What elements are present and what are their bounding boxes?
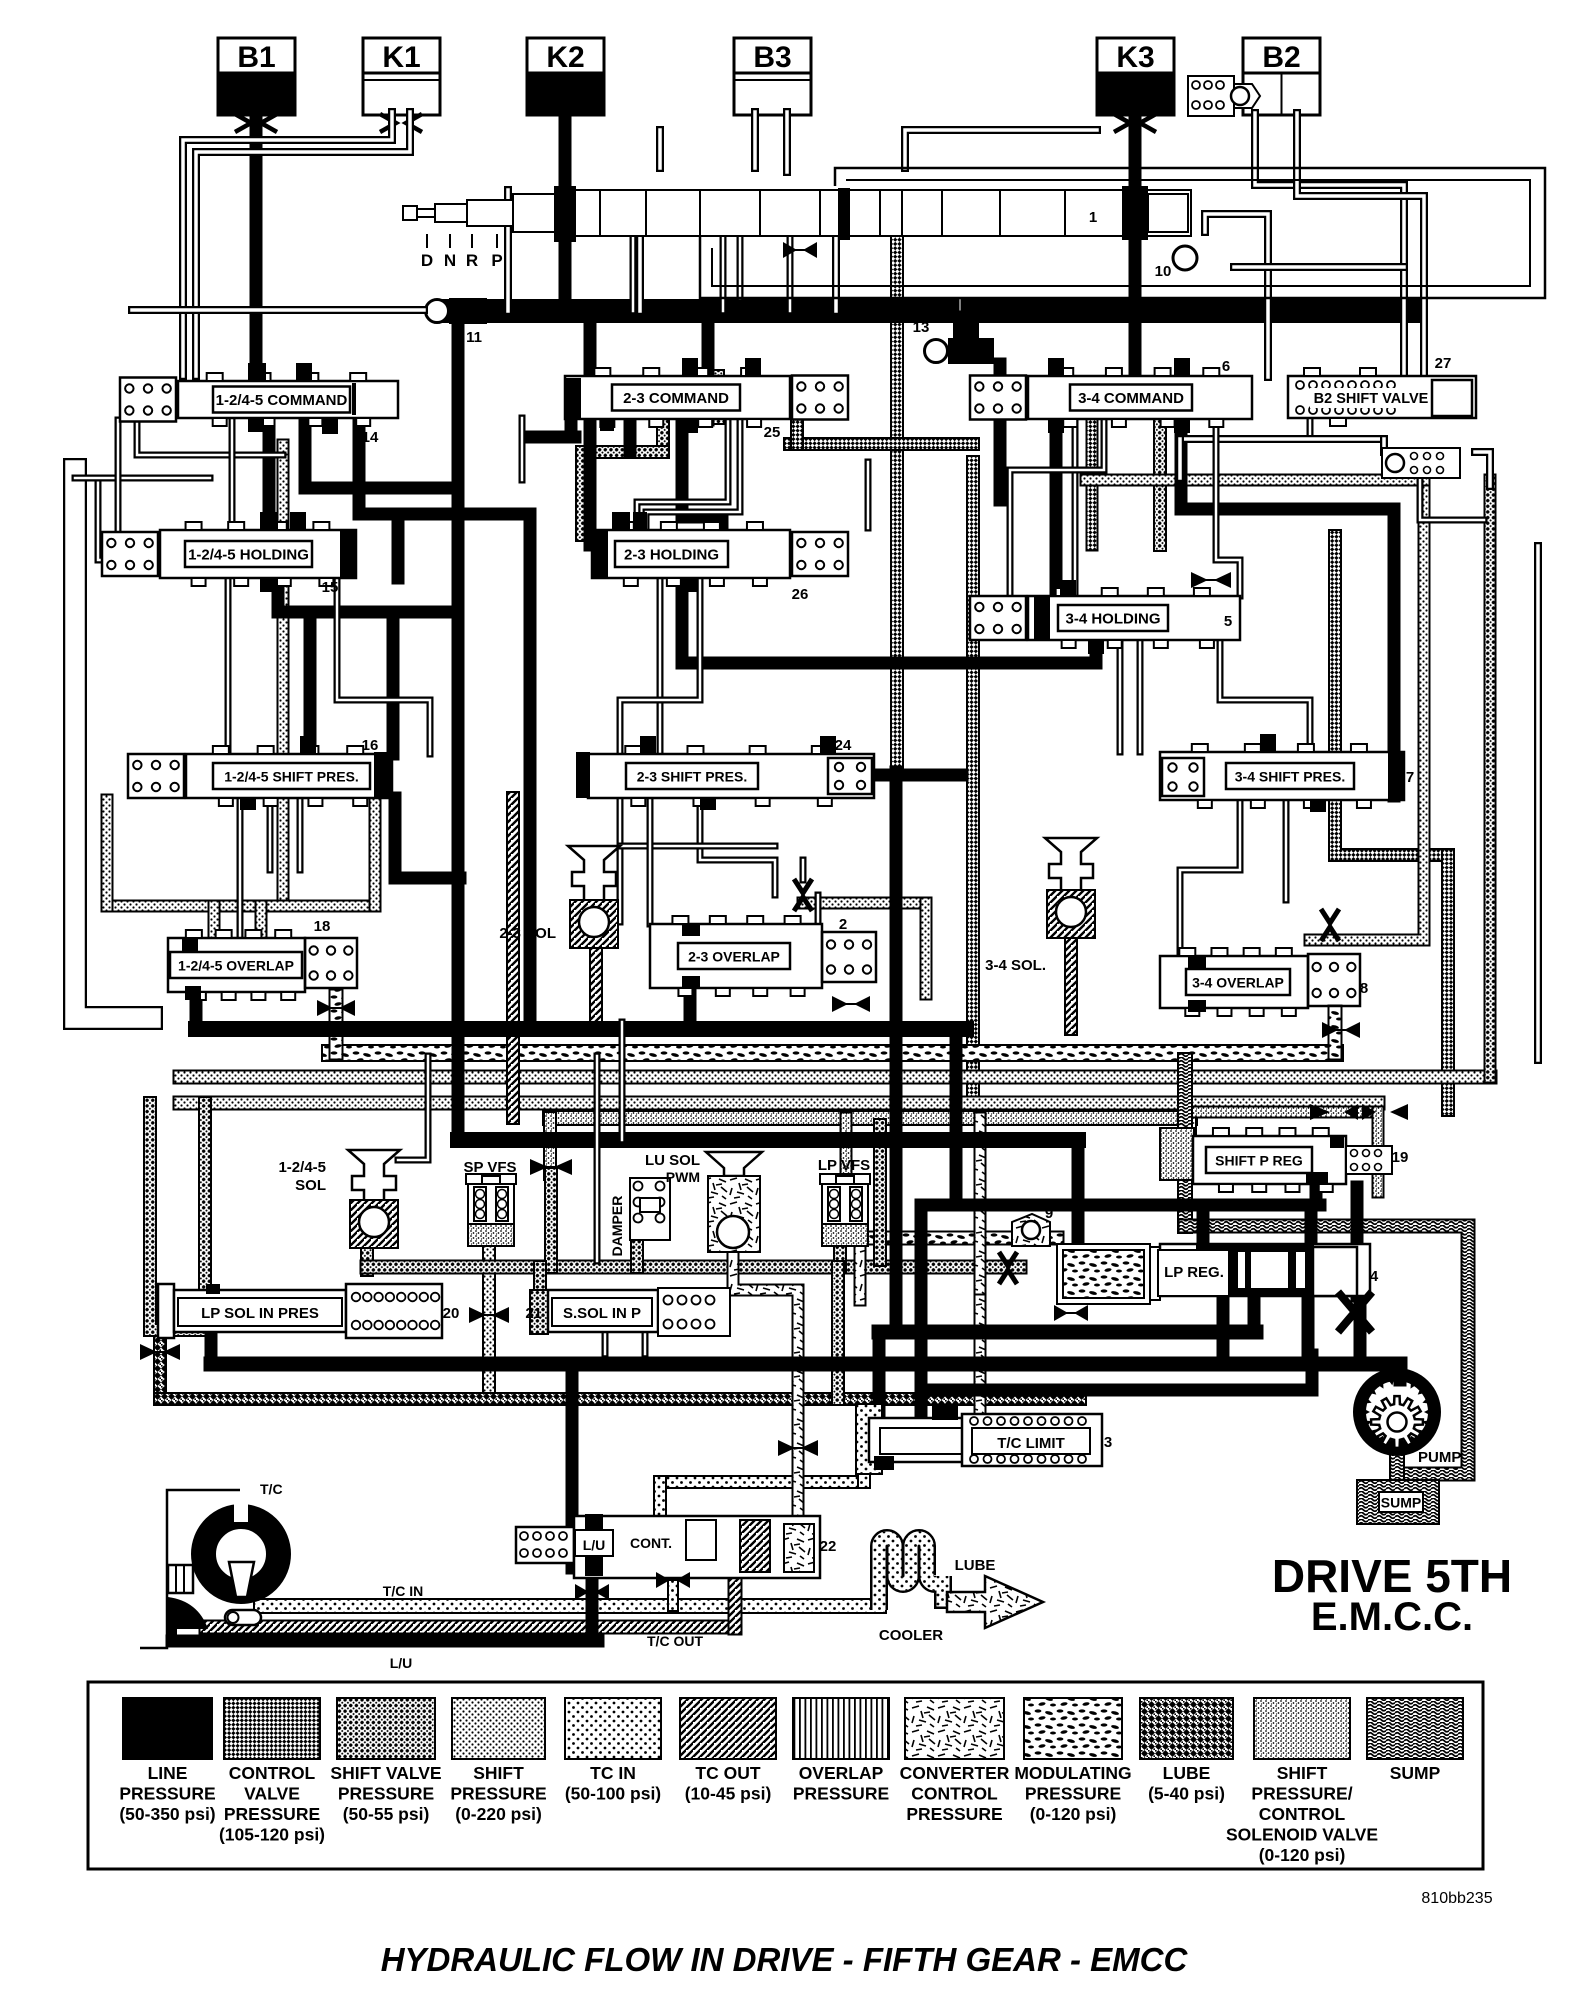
svg-text:B1: B1 [237, 41, 275, 74]
selector positions [421, 234, 503, 270]
pump inlet [1394, 1364, 1407, 1380]
sp vfs feed [543, 1118, 557, 1174]
svg-text:B3: B3 [753, 41, 791, 74]
drive 5th title [1272, 1550, 1512, 1639]
hld34 drop c [1137, 640, 1144, 752]
left frame C [98, 478, 160, 560]
valve 1-2/4-5 overlap [168, 930, 305, 1000]
tc left drop [167, 1626, 177, 1641]
svg-text:T/C IN: T/C IN [383, 1583, 423, 1599]
svg-text:N: N [444, 251, 456, 270]
drop to cap7 [1388, 509, 1401, 796]
orifice below manual valve [783, 242, 817, 258]
drop to lp reg [1072, 1140, 1085, 1246]
right drain riser [873, 1125, 887, 1260]
cmd34 drop b [1010, 419, 1104, 596]
svg-text:SOL: SOL [295, 1177, 326, 1194]
svg-text:VALVE: VALVE [244, 1784, 300, 1804]
legend swatch SHIFT VALVE [330, 1698, 441, 1824]
orifice on converter control drop [778, 1440, 818, 1456]
svg-text:1-2/4-5 COMMAND: 1-2/4-5 COMMAND [216, 392, 348, 409]
svg-text:K2: K2 [546, 41, 584, 74]
shift valve right edge drop [1484, 480, 1497, 1077]
shift pressure riser left [101, 800, 114, 906]
sp34 drop b [1283, 800, 1290, 900]
svg-text:LUBE: LUBE [955, 1557, 996, 1574]
item 4 label [1370, 1268, 1379, 1285]
item 25 label [764, 424, 781, 441]
solenoid LP VFS [820, 1174, 870, 1246]
control pressure drop [966, 462, 980, 1118]
converter control drop [733, 1252, 798, 1522]
item 2 label [839, 916, 847, 933]
T/C OUT label [647, 1633, 703, 1649]
svg-text:DAMPER: DAMPER [609, 1196, 625, 1257]
lube bottom header [160, 1392, 1080, 1406]
valve 1-2/4-5 command [120, 363, 398, 434]
ccp link [854, 1238, 867, 1300]
orifice below 3-4 overlap [1322, 1022, 1360, 1038]
svg-text:MODULATING: MODULATING [1014, 1763, 1131, 1783]
legend swatch TC OUT [680, 1698, 776, 1804]
overlap link 23 [620, 843, 775, 850]
svg-text:SUMP: SUMP [1390, 1763, 1441, 1783]
b2sv bottom header channel [1180, 435, 1384, 443]
line pressure center artery [890, 772, 903, 1332]
sp1 bottom branch [395, 798, 460, 878]
svg-text:LUBE: LUBE [1163, 1763, 1211, 1783]
hld1 to shift pres [304, 612, 317, 754]
band to ssol drop [533, 1267, 547, 1298]
orifice under B1 [235, 114, 277, 132]
svg-text:CONT.: CONT. [630, 1535, 672, 1551]
valve 3-4 overlap [1160, 948, 1308, 1016]
cmd23 left link [530, 431, 575, 444]
manual valve item 1 [403, 186, 1191, 242]
damper [609, 1178, 670, 1256]
shift p reg spring [1346, 1146, 1392, 1174]
lube arrow [947, 1576, 1043, 1628]
item 24 label [835, 737, 852, 754]
overlap check link [803, 897, 926, 910]
svg-text:PRESSURE: PRESSURE [224, 1804, 320, 1824]
lu cont bottom drop [586, 1570, 599, 1641]
cmd1 branch [305, 420, 458, 488]
shift pressure right [1310, 462, 1424, 940]
PUMP label [1418, 1449, 1461, 1466]
svg-text:26: 26 [792, 586, 809, 603]
junction 13 down stub [994, 364, 1007, 500]
sp1 drop b [297, 798, 304, 870]
svg-text:D: D [421, 251, 433, 270]
item 19 label [1392, 1149, 1409, 1166]
manual valve drop 5 [720, 236, 727, 311]
shift valve stub down 23 [656, 419, 670, 452]
svg-text:CONVERTER: CONVERTER [900, 1763, 1010, 1783]
valve shift p reg [1193, 1128, 1346, 1192]
check inlet [800, 860, 807, 880]
svg-text:1-2/4-5 SHIFT PRES.: 1-2/4-5 SHIFT PRES. [224, 769, 359, 785]
control stub 34 [1086, 419, 1099, 545]
check ball right of B2 shift valve [1382, 448, 1460, 478]
svg-text:OVERLAP: OVERLAP [799, 1763, 884, 1783]
svg-text:CONTROL: CONTROL [1259, 1804, 1346, 1824]
svg-text:810bb235: 810bb235 [1421, 1890, 1492, 1907]
modulating to ovl34 [1328, 1012, 1343, 1053]
valve 1-2/4-5 shift pres [128, 736, 392, 810]
svg-text:2-3 OVERLAP: 2-3 OVERLAP [688, 949, 780, 965]
legend swatch OVERLAP [793, 1698, 889, 1804]
valve T/C LIMIT [856, 1404, 1102, 1474]
svg-text:SHIFT: SHIFT [473, 1763, 524, 1783]
svg-text:(0-120 psi): (0-120 psi) [1259, 1845, 1346, 1865]
pump to sump [1389, 1452, 1405, 1482]
speckle drop right [1372, 1112, 1385, 1192]
sump frame [1185, 1226, 1468, 1474]
item 8 label [1360, 980, 1368, 997]
spacer [959, 168, 961, 310]
T/C IN line [261, 1598, 879, 1614]
cmd34 to hld34 [1050, 418, 1063, 598]
svg-text:PRESSURE: PRESSURE [119, 1784, 215, 1804]
drop to tc limit top [915, 1205, 928, 1418]
line pressure left artery [452, 322, 465, 1140]
svg-text:3-4 SHIFT PRES.: 3-4 SHIFT PRES. [1235, 769, 1345, 785]
orifice below 1-2/4-5 overlap [317, 1000, 355, 1016]
legend swatch SHIFT [450, 1698, 546, 1824]
valve LP SOL IN PRES [158, 1284, 442, 1338]
svg-text:PUMP: PUMP [1418, 1449, 1461, 1466]
svg-text:4: 4 [1370, 1268, 1379, 1285]
K1 channel A [183, 112, 392, 376]
ssol stem a [602, 1334, 609, 1354]
svg-text:CONTROL: CONTROL [229, 1763, 316, 1783]
T/C label [260, 1481, 283, 1497]
manual housing inner [737, 236, 744, 298]
orifice left frame [140, 1344, 180, 1360]
orifice above 3-4 holding [1191, 572, 1231, 588]
svg-text:19: 19 [1392, 1149, 1409, 1166]
svg-text:14: 14 [362, 429, 379, 446]
shift p reg bottom feed [1310, 1184, 1323, 1205]
sump frame left [1177, 1060, 1193, 1226]
sp1 drop a [237, 798, 244, 938]
item 21 label [525, 1305, 542, 1322]
brake B3 [734, 38, 811, 115]
orifice below L/U CONT [575, 1584, 609, 1600]
item 13 label [913, 319, 930, 336]
svg-text:TC IN: TC IN [590, 1763, 636, 1783]
svg-text:B2 SHIFT VALVE: B2 SHIFT VALVE [1314, 391, 1429, 407]
item 15 label [322, 579, 339, 596]
lube riser link [831, 1267, 845, 1399]
svg-text:20: 20 [443, 1305, 460, 1322]
document number [1421, 1890, 1492, 1907]
channel into junction 11 [132, 306, 424, 314]
spring drop 1 [115, 420, 122, 535]
legend swatch SUMP [1367, 1698, 1463, 1783]
orifice 20 [469, 1307, 509, 1323]
shift pressure riser right [369, 800, 382, 906]
sump box [1357, 1480, 1439, 1524]
shift p reg feed [1183, 1118, 1197, 1160]
sp23 drop a [617, 798, 624, 922]
tc limit drain riser [857, 1466, 871, 1482]
shift p reg speckle wing [1160, 1128, 1194, 1180]
orifice right of s sol [1054, 1305, 1088, 1321]
orifice right of SP VFS [530, 1159, 572, 1175]
svg-text:(50-350 psi): (50-350 psi) [119, 1804, 215, 1824]
svg-text:LP SOL IN PRES: LP SOL IN PRES [201, 1305, 319, 1322]
pump header C [921, 1384, 1312, 1397]
ball box link [1420, 478, 1484, 520]
control pressure from manual valve [890, 238, 904, 772]
shift pressure to overlap 1 [277, 445, 290, 906]
svg-text:24: 24 [835, 737, 852, 754]
ovl23 drop thin [619, 1022, 626, 1140]
control stub 23 [790, 419, 804, 444]
pump header B [211, 1357, 1400, 1372]
sp23 drop c [647, 798, 654, 924]
svg-text:LP VFS: LP VFS [818, 1157, 870, 1174]
svg-text:2: 2 [839, 916, 847, 933]
svg-text:(50-100 psi): (50-100 psi) [565, 1784, 661, 1804]
LUBE label [955, 1557, 996, 1574]
modulating to ovl1 [329, 996, 344, 1053]
check above 2-3 overlap [794, 879, 812, 911]
clutch K1 [363, 38, 440, 115]
valve 3-4 holding [970, 580, 1240, 654]
svg-text:3-4 SOL.: 3-4 SOL. [985, 957, 1046, 974]
svg-text:2-3 HOLDING: 2-3 HOLDING [624, 547, 719, 564]
svg-text:PRESSURE: PRESSURE [793, 1784, 889, 1804]
svg-text:13: 13 [913, 319, 930, 336]
legend swatch LUBE [1140, 1698, 1233, 1804]
sp vfs drain [544, 1174, 558, 1267]
check above 3-4 overlap [1321, 909, 1339, 941]
valve B2 shift valve [1288, 368, 1476, 426]
item 14 label [362, 429, 379, 446]
LP VFS label [818, 1157, 870, 1174]
shift valve link 23 [582, 445, 663, 459]
B2 channel B [1297, 113, 1424, 377]
sp23 drop b [700, 798, 775, 895]
mid drop thin [594, 1056, 601, 1261]
lp reg out A [1248, 1296, 1261, 1332]
item 10 link channel [1234, 263, 1404, 271]
3-4 shift pres spring [1162, 758, 1204, 796]
K1 channel B [196, 112, 410, 376]
svg-text:L/U: L/U [583, 1537, 606, 1553]
ovl23 bottom drop [684, 979, 697, 1029]
line pressure K2 drop [559, 112, 572, 311]
svg-text:PRESSURE: PRESSURE [1025, 1784, 1121, 1804]
svg-text:(0-120 psi): (0-120 psi) [1030, 1804, 1117, 1824]
shift pressure long header [180, 1096, 1378, 1111]
B2 channel A [1255, 113, 1404, 377]
sp1 drop c [267, 798, 274, 870]
lp reg out B [1217, 1296, 1230, 1364]
tc out riser [728, 1567, 743, 1628]
svg-text:(10-45 psi): (10-45 psi) [685, 1784, 772, 1804]
shift pressure top link [1086, 474, 1424, 487]
shift valve drop 23 [575, 452, 589, 535]
svg-text:COOLER: COOLER [879, 1627, 943, 1644]
valve 2-3 command [565, 358, 848, 433]
3-4 overlap spring (modulating fill) [1308, 954, 1360, 1006]
lp sol frame [150, 1103, 205, 1330]
svg-text:SHIFT P REG: SHIFT P REG [1215, 1153, 1303, 1169]
junction 13 riser [953, 324, 979, 338]
manual valve drop 6 [787, 236, 794, 311]
svg-text:PRESSURE: PRESSURE [338, 1784, 434, 1804]
svg-text:15: 15 [322, 579, 339, 596]
shift valve stub 34 [1153, 418, 1167, 545]
main title [381, 1941, 1189, 1978]
K3 link channel [905, 130, 1097, 168]
valve 2-3 shift pres [576, 736, 874, 810]
drop to overlap header [524, 514, 537, 1029]
LU SOL PWM label [645, 1152, 700, 1185]
svg-text:11: 11 [466, 329, 482, 346]
svg-text:3-4 COMMAND: 3-4 COMMAND [1078, 390, 1184, 407]
shift pressure link left [107, 900, 375, 913]
ovl1 top feed b [255, 906, 268, 940]
item 18 label [314, 918, 331, 935]
junction 13 [925, 338, 995, 364]
valve LP REG [1057, 1244, 1370, 1304]
torque converter T/C [140, 1490, 279, 1648]
svg-text:LU SOL: LU SOL [645, 1152, 700, 1169]
ovl1 bottom port drop [190, 996, 203, 1029]
item 10 to B2 shift valve channel [1205, 214, 1268, 377]
cmd23 drop b [646, 419, 740, 530]
svg-text:5: 5 [1224, 613, 1232, 630]
hld23 to hld34 header [682, 578, 1096, 663]
drop to shp link [1176, 439, 1184, 478]
overlap check drop [920, 903, 933, 994]
item 6 label [1222, 358, 1230, 375]
legend swatch SHIFT [1226, 1698, 1378, 1865]
svg-text:2-3 COMMAND: 2-3 COMMAND [623, 390, 729, 407]
cmd1 right branch [359, 413, 530, 514]
drop to hld1 right [392, 514, 405, 578]
svg-text:2-3 SOL: 2-3 SOL [499, 925, 556, 942]
svg-text:10: 10 [1155, 263, 1172, 280]
svg-text:T/C LIMIT: T/C LIMIT [997, 1435, 1065, 1452]
pump [1360, 1375, 1435, 1450]
svg-text:16: 16 [362, 737, 379, 754]
legend swatch LINE [119, 1698, 215, 1824]
solenoid 1-2/4-5 SOL [348, 1150, 400, 1248]
valve 3-4 command [970, 358, 1252, 433]
cmd23 drop a [637, 419, 728, 530]
svg-text:PRESSURE/: PRESSURE/ [1251, 1784, 1352, 1804]
hdr C riser [1306, 1355, 1319, 1390]
modulating header [330, 1044, 1335, 1062]
B3 channel C [656, 130, 664, 168]
overlap header [196, 1021, 966, 1037]
hld1 bottom branch [278, 578, 458, 612]
svg-text:6: 6 [1222, 358, 1230, 375]
svg-text:1-2/4-5 OVERLAP: 1-2/4-5 OVERLAP [178, 958, 294, 974]
svg-text:3-4 HOLDING: 3-4 HOLDING [1065, 611, 1160, 628]
item 3 label [1104, 1434, 1112, 1451]
svg-text:TC OUT: TC OUT [695, 1763, 760, 1783]
converter control riser [974, 1118, 987, 1300]
ovl23 top feed [815, 895, 822, 922]
ssol stem b [642, 1334, 649, 1354]
ccp riser lower [974, 1300, 987, 1440]
legend box [88, 1682, 1483, 1869]
svg-text:K1: K1 [382, 41, 420, 74]
lp vfs feed [840, 1118, 853, 1178]
svg-text:8: 8 [1360, 980, 1368, 997]
speckle header right [1190, 1106, 1378, 1119]
mid header [458, 1132, 1078, 1148]
lp sol drop [205, 1298, 218, 1364]
svg-text:18: 18 [314, 918, 331, 935]
svg-text:P: P [491, 251, 502, 270]
T/C OUT line [206, 1620, 735, 1635]
arrow symbols above shift p reg [1310, 1104, 1408, 1120]
cmd34 drop a [1072, 419, 1079, 596]
solenoid 3-4 SOL [1045, 838, 1097, 938]
valve S SOL IN P [530, 1288, 730, 1336]
2-3 shift pres spring [828, 758, 872, 794]
valve item 9 [1012, 1205, 1053, 1246]
COOLER label [879, 1627, 943, 1644]
svg-text:7: 7 [1406, 769, 1414, 786]
manual valve drop 3 [832, 236, 840, 311]
svg-text:SOLENOID VALVE: SOLENOID VALVE [1226, 1825, 1378, 1845]
svg-text:T/C OUT: T/C OUT [647, 1633, 703, 1649]
svg-text:CONTROL: CONTROL [911, 1784, 998, 1804]
cmd23 left cap drop [565, 418, 578, 437]
check below item 9 [999, 1252, 1017, 1284]
solenoid supply header [550, 1110, 1190, 1126]
svg-text:2-3 SHIFT PRES.: 2-3 SHIFT PRES. [637, 769, 747, 785]
link [137, 420, 283, 455]
svg-text:1-2/4-5: 1-2/4-5 [278, 1159, 326, 1176]
svg-text:R: R [466, 251, 478, 270]
svg-text:S.SOL IN P: S.SOL IN P [563, 1305, 641, 1322]
modulating lp vfs to lp reg [858, 1231, 1057, 1246]
orifice below item 4 [1338, 1292, 1372, 1332]
legend swatch TC IN [565, 1698, 661, 1804]
cmd23 bottom stub [624, 418, 637, 452]
2-3 overlap spring (modulating fill) [822, 932, 876, 982]
brake B2 [1243, 38, 1320, 115]
line pressure K3 drop [1129, 110, 1142, 380]
cmd34 right branch [1181, 418, 1394, 509]
valve L/U CONT [516, 1514, 820, 1578]
manual valve drop 2 [636, 236, 644, 311]
svg-text:E.M.C.C.: E.M.C.C. [1311, 1595, 1473, 1639]
legend swatch MODULATING [1014, 1698, 1131, 1824]
sol23 drain 2 [589, 944, 603, 1022]
svg-text:(50-55 psi): (50-55 psi) [343, 1804, 430, 1824]
brake B1 [218, 38, 295, 115]
cmd1 port drop [229, 418, 236, 530]
L/U label [390, 1655, 413, 1671]
ball check near B2 [1188, 76, 1260, 116]
svg-text:(5-40 psi): (5-40 psi) [1148, 1784, 1225, 1804]
pump header A [879, 1325, 1256, 1340]
ovl1 top feed a [208, 906, 221, 940]
svg-text:1: 1 [1089, 209, 1097, 226]
B3 channel B [783, 112, 791, 172]
